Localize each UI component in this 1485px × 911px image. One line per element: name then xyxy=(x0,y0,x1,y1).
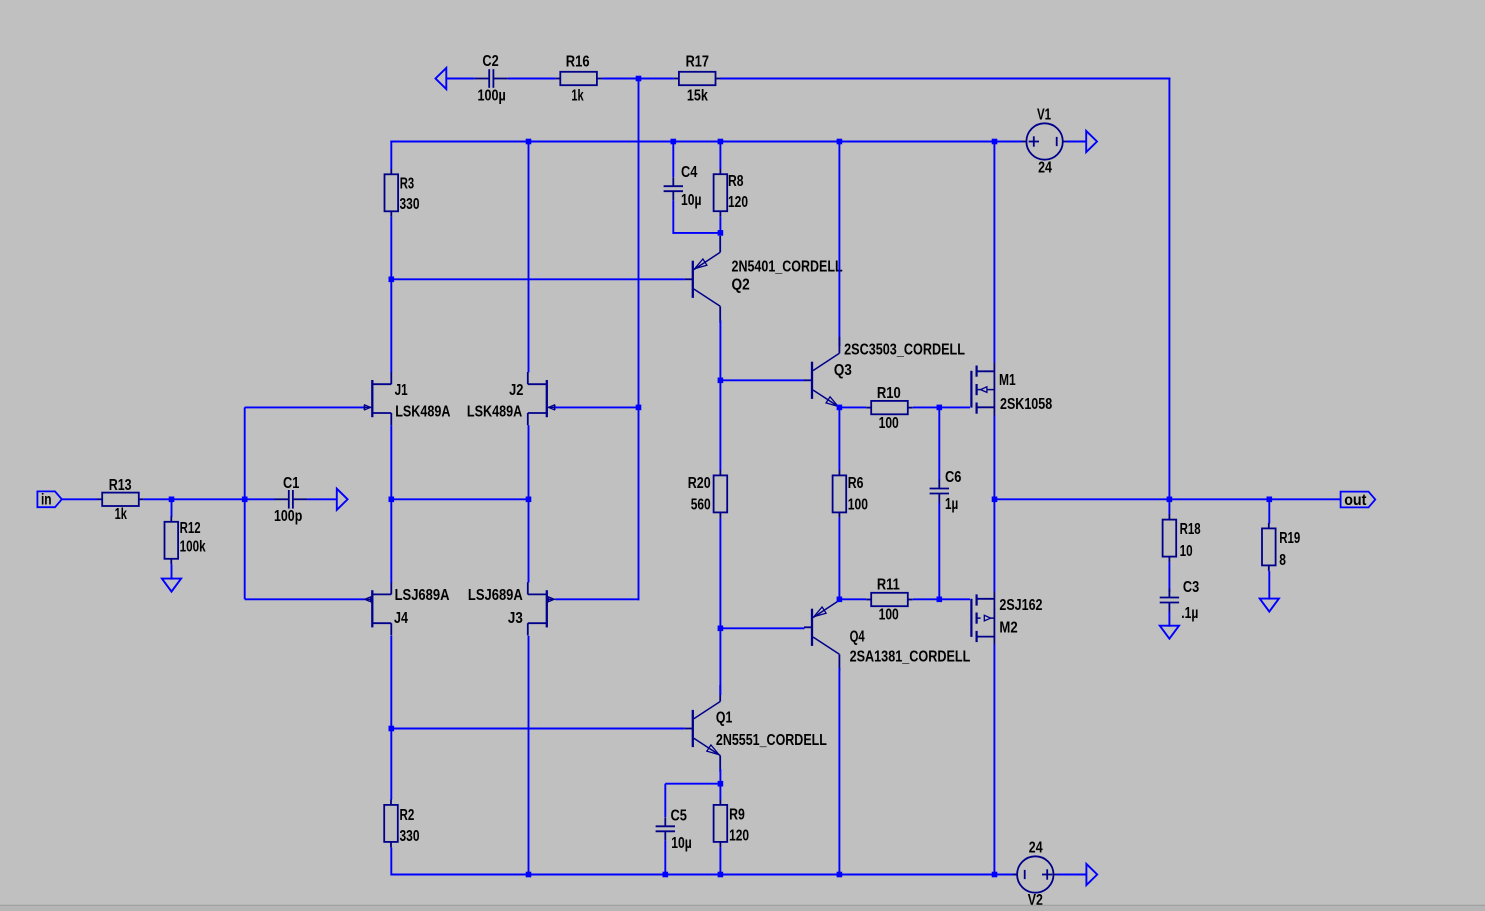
wire J3 bottom down to rail xyxy=(528,636,530,875)
junction J1/J4 sources xyxy=(389,497,395,503)
wire J1 source down xyxy=(390,425,392,499)
wire R11 to lower gate node xyxy=(913,598,939,600)
junction J2 gate/feedback xyxy=(636,405,642,411)
junction out/R18/feedback xyxy=(1167,497,1173,503)
wire gate column to J4 gate xyxy=(245,598,365,600)
svg-text:24: 24 xyxy=(1038,160,1052,177)
svg-text:10µ: 10µ xyxy=(681,192,702,209)
jfet J4 xyxy=(364,582,449,635)
resistor R19 xyxy=(1262,523,1300,571)
junction bus/Q3 collector xyxy=(837,139,843,145)
capacitor C4 xyxy=(664,164,702,209)
wire Q2 collector down xyxy=(719,321,721,381)
transistor Q2 xyxy=(685,236,843,323)
svg-text:J4: J4 xyxy=(394,610,408,627)
wire J4 top up xyxy=(390,499,392,582)
svg-text:2SJ162: 2SJ162 xyxy=(999,597,1042,614)
svg-text:2SA1381_CORDELL: 2SA1381_CORDELL xyxy=(850,649,971,666)
svg-text:LSJ689A: LSJ689A xyxy=(395,587,450,604)
wire node to R9 xyxy=(719,784,721,800)
wire bus corner down to R3 xyxy=(390,142,392,170)
mosfet M2 xyxy=(971,591,1042,644)
wire M1 source down to out xyxy=(993,416,995,500)
junction rail/J3 xyxy=(526,872,532,878)
junction Q2 collector/Q3 base/R20 xyxy=(718,378,724,384)
svg-text:C4: C4 xyxy=(681,164,697,181)
svg-text:R13: R13 xyxy=(109,477,132,494)
resistor R9 xyxy=(714,799,750,847)
wire output wire xyxy=(995,498,1341,500)
svg-text:R16: R16 xyxy=(566,54,590,71)
svg-text:100: 100 xyxy=(879,607,899,624)
svg-text:Q1: Q1 xyxy=(716,710,733,727)
wire C3 to ground xyxy=(1168,612,1170,627)
svg-text:M2: M2 xyxy=(999,620,1017,637)
wire node to C1 xyxy=(245,498,275,500)
wire R13 to R12 node xyxy=(144,498,172,500)
svg-text:8: 8 xyxy=(1279,552,1286,569)
svg-text:C3: C3 xyxy=(1183,579,1199,596)
svg-text:Q3: Q3 xyxy=(834,362,852,379)
transistor Q3 xyxy=(804,337,965,408)
net flag arrow top-left xyxy=(436,68,447,89)
wire Q3 base wire xyxy=(720,379,804,381)
wire M1 drain up to bus xyxy=(993,142,995,363)
wire C4 corner to emitter node xyxy=(673,232,720,234)
wire arrow to C2 xyxy=(446,78,475,80)
resistor R6 xyxy=(833,470,869,518)
wire node to R18 xyxy=(1168,499,1170,514)
mosfet M1 xyxy=(971,362,1052,416)
svg-text:10: 10 xyxy=(1180,543,1193,560)
wire node to R19 xyxy=(1268,499,1270,523)
wire Q3 emitter to R10 xyxy=(839,406,866,408)
wire bus down to Q3 collector xyxy=(838,142,840,347)
wire Q1 emitter down xyxy=(719,769,721,784)
svg-text:Q4: Q4 xyxy=(850,629,865,646)
junction R10/C6/M1 gate xyxy=(937,405,943,411)
svg-text:100: 100 xyxy=(879,415,899,432)
wire C5 top lead xyxy=(664,784,666,817)
svg-text:C6: C6 xyxy=(945,469,962,486)
port input port xyxy=(37,491,61,508)
wire C6 down to lower gate node xyxy=(938,503,940,600)
svg-text:LSK489A: LSK489A xyxy=(467,403,522,420)
junction rail/M2 drain/V2 xyxy=(992,872,998,878)
svg-text:1k: 1k xyxy=(571,88,583,105)
ground R12 xyxy=(162,579,181,592)
svg-text:C1: C1 xyxy=(283,475,299,492)
wire C5 to rail xyxy=(664,840,666,874)
wire V1 to arrow xyxy=(1067,141,1087,143)
net flag arrow V1 minus xyxy=(1086,131,1097,152)
wire R12 node to gate column xyxy=(172,498,245,500)
junction rail/R9 xyxy=(718,872,724,878)
wire in port to R13 xyxy=(62,498,98,500)
wire J2 drain up to bus xyxy=(528,142,530,373)
wire Q4 emitter node to R11 xyxy=(839,598,866,600)
wire C1 to arrow xyxy=(307,498,337,500)
svg-text:1k: 1k xyxy=(115,506,127,523)
capacitor C2 xyxy=(475,53,508,105)
net flag arrow V2 minus xyxy=(1086,864,1097,885)
svg-text:1µ: 1µ xyxy=(945,496,958,513)
junction bus/M1 drain/V1 xyxy=(992,139,998,145)
voltage source V1 xyxy=(1022,107,1067,177)
resistor R3 xyxy=(385,169,420,217)
wire bus down to R8 xyxy=(719,142,721,170)
svg-text:330: 330 xyxy=(400,828,420,845)
wire M2 source up to out xyxy=(993,499,995,591)
wire gate node to M1 xyxy=(939,406,970,408)
wire Q2 base wire xyxy=(391,278,685,280)
svg-text:2SK1058: 2SK1058 xyxy=(1000,396,1052,413)
wire node to R20 xyxy=(719,380,721,470)
wire M2 drain down to rail xyxy=(993,644,995,874)
junction R11/C6/M2 gate xyxy=(937,597,943,603)
jfet J1 xyxy=(364,372,450,425)
svg-text:M1: M1 xyxy=(999,372,1016,389)
svg-text:10µ: 10µ xyxy=(671,835,692,852)
wire R10 to gate node xyxy=(913,406,939,408)
voltage source V2 xyxy=(1013,839,1058,909)
junction Q1 emitter/C5/R9 xyxy=(718,781,724,787)
wire R9 to rail xyxy=(719,847,721,874)
net flag arrow C1 xyxy=(337,489,348,510)
wire node down to R2 xyxy=(390,729,392,800)
resistor R12 xyxy=(165,516,206,564)
wire Q1 base wire xyxy=(391,728,685,730)
svg-text:C2: C2 xyxy=(482,53,498,70)
wire C4 down to corner xyxy=(672,200,674,234)
svg-text:LSK489A: LSK489A xyxy=(395,403,450,420)
bottom window strip xyxy=(0,906,1485,911)
svg-text:J2: J2 xyxy=(509,382,523,399)
resistor R17 xyxy=(674,54,721,105)
svg-text:R2: R2 xyxy=(400,807,415,824)
wire node to R17 xyxy=(639,78,674,80)
svg-text:2SC3503_CORDELL: 2SC3503_CORDELL xyxy=(844,342,965,359)
svg-text:15k: 15k xyxy=(687,88,708,105)
junction J2/J3 sources xyxy=(526,497,532,503)
transistor Q1 xyxy=(685,685,827,772)
svg-text:R10: R10 xyxy=(877,385,901,402)
capacitor C5 xyxy=(656,808,692,852)
wire C2 to R16 xyxy=(508,78,556,80)
capacitor C6 xyxy=(930,469,962,513)
svg-text:.1µ: .1µ xyxy=(1181,605,1198,622)
resistor R18 xyxy=(1163,514,1201,562)
wire R20 to Q4-base node xyxy=(719,518,721,628)
wire gate column up xyxy=(244,407,246,599)
junction rail/Q4 collector xyxy=(837,872,843,878)
wire bus to V1 xyxy=(995,141,1023,143)
junction out/R19 xyxy=(1267,497,1273,503)
svg-text:120: 120 xyxy=(728,194,748,211)
port output port xyxy=(1341,492,1376,509)
resistor R8 xyxy=(714,169,749,217)
wire tap down to J3 gate corner xyxy=(638,407,640,600)
wire corner to J3 gate xyxy=(555,598,639,600)
wire J3 top up xyxy=(528,499,530,582)
resistor R16 xyxy=(555,54,602,105)
junction bus/J2 drain xyxy=(526,139,532,145)
wire feedback vertical xyxy=(1168,78,1170,500)
transistor Q4 xyxy=(804,600,971,671)
capacitor C1 xyxy=(274,475,307,525)
junction bus/C4 xyxy=(671,139,677,145)
wire R2 to rail xyxy=(390,847,392,875)
wire J2 gate to tap xyxy=(555,406,639,408)
wire Q4 collector down to rail xyxy=(838,668,840,875)
resistor R13 xyxy=(97,477,144,523)
wire V2 to arrow xyxy=(1058,874,1087,876)
wire emitter node to C5 xyxy=(665,783,720,785)
svg-text:100k: 100k xyxy=(180,539,206,556)
wire R19 to ground xyxy=(1268,571,1270,600)
wire positive supply bus xyxy=(390,141,995,143)
junction J4 drain/R2/Q1 base xyxy=(389,726,395,732)
wire R12 to ground xyxy=(171,564,173,579)
svg-text:R6: R6 xyxy=(848,475,864,492)
svg-text:100µ: 100µ xyxy=(478,88,506,105)
junction R8/C4/Q2 emitter xyxy=(718,230,724,236)
junction R6/R11/Q4 emitter xyxy=(837,597,843,603)
wire lower gate node to M2 xyxy=(939,598,970,600)
junction output node xyxy=(992,497,998,503)
svg-text:560: 560 xyxy=(691,497,711,514)
svg-text:R9: R9 xyxy=(729,806,745,823)
resistor R10 xyxy=(866,385,913,432)
junction R13/R12 xyxy=(169,497,175,503)
svg-text:Q2: Q2 xyxy=(732,277,750,294)
wire Q4 base wire xyxy=(720,627,804,629)
svg-text:J3: J3 xyxy=(508,610,523,627)
junction Q3 emitter/R10/R6 xyxy=(837,405,843,411)
resistor R20 xyxy=(688,470,727,518)
wire node down to R12 xyxy=(171,499,173,517)
wire source coupling xyxy=(391,498,528,500)
svg-text:LSJ689A: LSJ689A xyxy=(468,587,523,604)
junction R20/Q4 base/Q1 collector xyxy=(718,626,724,632)
resistor R2 xyxy=(384,799,419,847)
wire R8 to emitter node xyxy=(719,217,721,233)
svg-text:R8: R8 xyxy=(728,173,744,190)
svg-text:100p: 100p xyxy=(274,508,302,525)
wire node to R6 xyxy=(838,407,840,470)
svg-text:120: 120 xyxy=(729,828,749,845)
wire Q1 collector up xyxy=(719,628,721,695)
svg-text:R20: R20 xyxy=(688,475,711,492)
svg-text:100: 100 xyxy=(848,497,868,514)
wire J2 source down xyxy=(528,425,530,499)
wire negative rail xyxy=(391,874,1017,876)
svg-text:J1: J1 xyxy=(395,382,408,399)
wire node down to J1 drain xyxy=(390,279,392,372)
ground C3 xyxy=(1160,626,1179,639)
svg-text:R12: R12 xyxy=(180,520,201,537)
junction bus/R8 xyxy=(718,139,724,145)
svg-text:R17: R17 xyxy=(686,54,709,71)
wire R3 to Q2-base node xyxy=(390,217,392,279)
junction R16/R17 tap xyxy=(636,76,642,82)
junction rail/C5 xyxy=(663,872,669,878)
svg-text:in: in xyxy=(41,492,52,509)
wire gate node down to C6 xyxy=(938,407,940,480)
svg-text:R3: R3 xyxy=(400,176,415,193)
wire tap down to J2 gate xyxy=(638,79,640,408)
junction input gate column xyxy=(242,497,248,503)
svg-text:out: out xyxy=(1344,492,1367,509)
svg-text:R11: R11 xyxy=(877,577,900,594)
svg-text:R19: R19 xyxy=(1279,530,1300,547)
capacitor C3 xyxy=(1160,579,1200,622)
ground R19 xyxy=(1260,599,1279,612)
svg-text:R18: R18 xyxy=(1180,521,1201,538)
wire gate column to J1 gate xyxy=(245,406,365,408)
resistor R11 xyxy=(866,577,913,624)
jfet J3 xyxy=(468,582,555,635)
wire R16 to node xyxy=(602,78,639,80)
jfet J2 xyxy=(467,372,555,425)
wire R17 to feedback corner xyxy=(721,78,1171,80)
svg-text:24: 24 xyxy=(1029,839,1043,856)
wire J4 bottom down xyxy=(390,636,392,729)
svg-text:2N5401_CORDELL: 2N5401_CORDELL xyxy=(732,259,843,276)
svg-text:C5: C5 xyxy=(671,808,688,825)
svg-text:330: 330 xyxy=(400,196,420,213)
wire R18 to C3 xyxy=(1168,562,1170,592)
svg-text:V1: V1 xyxy=(1037,107,1051,124)
svg-text:2N5551_CORDELL: 2N5551_CORDELL xyxy=(716,732,827,749)
wire R6 to lower node xyxy=(838,518,840,599)
wire bus down to C4 xyxy=(672,142,674,178)
junction R3/J1 drain/Q2 base xyxy=(389,277,395,283)
